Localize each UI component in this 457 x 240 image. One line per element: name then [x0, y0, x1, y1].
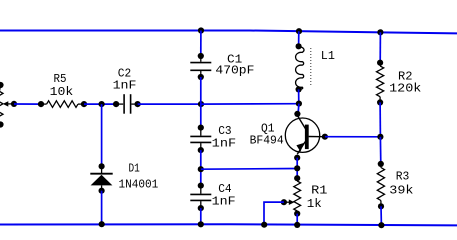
svg-text:39k: 39k — [389, 183, 413, 197]
svg-text:1N4001: 1N4001 — [119, 178, 159, 192]
R3 bottom terminal dot — [378, 203, 384, 209]
svg-text:R3: R3 — [396, 170, 410, 184]
capacitor C2 — [116, 103, 123, 105]
wire feedback node to emitter — [201, 168, 297, 171]
svg-text:BF494: BF494 — [250, 133, 284, 147]
inductor L1 — [296, 47, 304, 90]
wire C4 to ground rail — [200, 208, 202, 224]
R1 top terminal dot — [294, 175, 300, 181]
svg-text:1nF: 1nF — [212, 136, 237, 150]
wire R2 to base node — [379, 102, 381, 136]
pot terminal dot top — [0, 82, 4, 88]
C4 top terminal dot — [198, 183, 204, 189]
capacitor C1 — [200, 56, 202, 62]
R1 wiper arrow — [284, 201, 289, 203]
junction dot D1 ground — [99, 221, 105, 227]
R3 top terminal dot — [378, 161, 384, 167]
junction dot D1 branch — [99, 101, 105, 107]
wire R3 to ground rail — [380, 206, 382, 225]
junction dot base divider node — [377, 134, 383, 140]
R2 top terminal dot — [377, 60, 383, 66]
svg-text:R5: R5 — [54, 72, 67, 86]
junction dot C4 ground — [198, 221, 204, 227]
Q1 emitter arrow — [296, 143, 303, 152]
svg-text:120k: 120k — [389, 82, 421, 96]
svg-text:470pF: 470pF — [215, 63, 254, 77]
svg-text:1nF: 1nF — [113, 78, 137, 92]
svg-text:1nF: 1nF — [212, 194, 236, 208]
wire top rail to L1 — [298, 31, 300, 46]
junction dot top rail R2 — [377, 29, 383, 35]
junction dot R3 ground — [378, 222, 384, 228]
wire C3 to feedback node — [200, 150, 202, 186]
junction dot feedback node — [198, 166, 204, 172]
junction dot emitter feedback — [294, 165, 300, 171]
node R5 right terminal dot — [81, 101, 87, 107]
Q1 emitter terminal dot — [294, 155, 300, 161]
wire top rail to C1 — [200, 31, 202, 57]
wire emitter down — [296, 158, 298, 179]
junction dot tank node at C1 column — [198, 101, 204, 107]
wire tank node to collector node — [201, 103, 299, 105]
R2 bottom terminal dot — [377, 99, 383, 105]
junction dot wiper wire — [11, 101, 17, 107]
wire pot top lead — [0, 85, 1, 91]
junction dot top rail L1 — [296, 28, 302, 34]
C4 bottom terminal dot — [198, 205, 204, 211]
svg-text:1k: 1k — [307, 197, 322, 211]
L1 top terminal dot — [296, 43, 302, 49]
L1 core dotted line — [310, 48, 312, 86]
resistor R2 — [379, 63, 381, 66]
junction dot wiper ground — [261, 222, 267, 228]
diode D1 — [101, 166, 103, 173]
resistor R3 — [380, 164, 382, 168]
C1 top terminal dot — [198, 53, 204, 59]
R1 bottom terminal dot — [294, 211, 300, 217]
junction dot collector node — [296, 101, 302, 107]
wire top rail (+V) — [0, 31, 457, 34]
wire collector node down — [297, 104, 300, 113]
wire D1 branch down — [101, 104, 103, 166]
pot wiper arrow — [3, 101, 9, 106]
junction dot top rail C1 — [198, 27, 204, 33]
wire C2 to tank node — [138, 103, 201, 105]
L1 bottom terminal dot — [296, 86, 302, 92]
wire base to divider — [325, 136, 381, 138]
resistor R1 (trimmer) — [296, 178, 298, 181]
wire R5 to C2 — [84, 103, 116, 105]
Q1 base terminal dot — [322, 134, 328, 140]
C2 right terminal dot — [135, 101, 141, 107]
C3 top terminal dot — [198, 125, 204, 131]
wire wiper to ground — [264, 202, 284, 225]
C3 bottom terminal dot — [198, 147, 204, 153]
resistor R5 — [41, 103, 47, 105]
svg-text:R1: R1 — [311, 183, 327, 197]
svg-text:10k: 10k — [50, 85, 74, 99]
C1 bottom terminal dot — [198, 74, 204, 80]
wire pot bottom lead — [0, 122, 1, 125]
wire base node to R3 — [379, 137, 381, 164]
wire wiper to R5 — [14, 103, 41, 105]
junction dot R1 ground — [294, 222, 300, 228]
transistor Q1 — [285, 118, 319, 152]
wire R1 to ground rail — [296, 214, 298, 225]
node R5 left terminal dot — [38, 101, 44, 107]
C2 left terminal dot — [113, 101, 119, 107]
svg-text:L1: L1 — [321, 49, 335, 63]
D1 anode terminal dot — [99, 163, 105, 169]
svg-text:D1: D1 — [129, 162, 140, 176]
potentiometer (cut off at left edge) — [0, 91, 3, 122]
wire L1 to collector node — [298, 89, 300, 103]
Q1 base lead — [309, 136, 323, 138]
D1 cathode terminal dot — [99, 188, 105, 194]
wire top rail to R2 — [379, 32, 381, 62]
junction dot wiper — [281, 199, 287, 205]
Q1 collector terminal dot — [294, 111, 300, 117]
capacitor C3 — [200, 128, 202, 136]
capacitor C4 — [200, 186, 202, 194]
pot terminal dot bottom — [0, 121, 4, 127]
wire C1 to tank node — [200, 77, 202, 128]
wire bottom rail (ground) — [0, 224, 457, 225]
wire D1 to ground rail — [101, 191, 103, 225]
